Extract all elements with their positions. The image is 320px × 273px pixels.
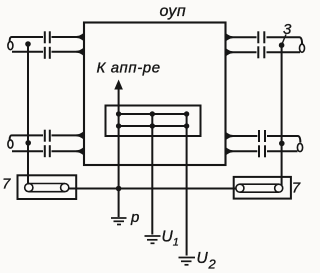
wire: bottom-left pair into block [52,134,78,136]
node: sheath junction (bottom-right) [279,141,285,147]
wire: line to earth U2 [186,126,188,256]
inner rect (terminal board) [106,106,201,137]
wire: right sheath down-lead [281,45,283,185]
svg-text:р: р [130,209,139,226]
flare: bottom-right wire a entry [226,132,234,141]
cable end ellipse (top-right) [300,44,305,52]
wire: bottom-right pair into block [233,135,257,137]
cable sheath tube (bottom-left) [10,135,43,140]
svg-text:оуп: оуп [160,3,187,20]
arrowhead (to equipment) [114,80,123,90]
svg-text:1: 1 [173,237,179,249]
node: junction with earth bus [116,186,122,192]
wire: terminal link 1 [118,114,120,126]
earth bus wire between dischargers [69,188,236,190]
block ОУП (amplifier station body) [84,23,226,166]
node: sheath junction (top-right) [279,42,285,48]
wire: left sheath down-lead [27,44,29,185]
cable end ellipse (bottom-right) [297,143,302,151]
svg-text:2: 2 [208,257,217,272]
svg-text:7: 7 [2,176,11,193]
wire: terminal board top bus [119,113,187,115]
svg-text:3: 3 [283,21,292,38]
svg-text:U: U [162,229,174,246]
cable sheath tube (top-left) [10,37,43,42]
capacitor: bottom-left cable wire a [44,130,46,142]
flare: bottom-right wire b entry [226,147,234,156]
capacitor: top-left cable wire b [44,47,46,59]
wire: line to earth U1 [151,126,153,235]
capacitor: top-right cable wire a [257,31,259,43]
wire: line to station earth p [118,126,120,217]
discharger element (left): end circles and body [25,184,33,192]
capacitor: bottom-left cable wire b [44,145,46,157]
cable end ellipse (bottom-left) [8,140,13,148]
discharger box (right) [234,177,291,199]
capacitor: bottom-right cable wire b [258,145,260,157]
ground: earth U2 [179,258,196,265]
ground: station earth р [111,218,127,225]
node: sheath junction (bottom-left) [25,140,31,146]
node: terminal 3 top [184,111,189,116]
capacitor: top-left cable wire a [44,31,46,43]
discharger element (right): end circles and body [236,184,244,192]
flare: top-left wire b entry [77,47,85,56]
flare: top-left wire a entry [77,33,85,42]
flare: top-right wire b entry [226,48,234,57]
node: terminal 1 bottom [116,123,121,128]
cable end ellipse (top-left) [8,42,13,50]
wire: terminal link 2 [151,114,153,126]
flare: top-right wire a entry [226,33,234,42]
wire: top-left pair into block [52,36,78,38]
node: terminal 3 bottom [184,123,189,128]
wire: top-right pair into block [233,36,257,38]
wire: terminal link 3 [186,114,188,126]
flare: bottom-left wire b entry [77,147,85,156]
cable sheath tube (bottom-right) [267,136,300,143]
svg-text:К апп-ре: К апп-ре [97,60,161,77]
svg-text:7: 7 [292,180,301,197]
wire: terminal board bottom bus [119,125,187,127]
capacitor: top-right cable wire b [257,46,259,58]
flare: bottom-left wire a entry [77,131,85,140]
leader: 3 to sheath node [282,35,286,45]
node: sheath junction (top-left) [25,41,31,47]
discharger box (left) [18,175,77,199]
ground: earth U1 [145,236,161,243]
node: terminal 2 bottom [150,123,155,128]
svg-text:U: U [197,250,209,267]
node: terminal 1 top [116,111,121,116]
wire: arrow stem to equipment [118,89,120,115]
cable sheath tube (top-right) [267,37,303,44]
capacitor: bottom-right cable wire a [258,130,260,142]
node: terminal 2 top [150,111,155,116]
